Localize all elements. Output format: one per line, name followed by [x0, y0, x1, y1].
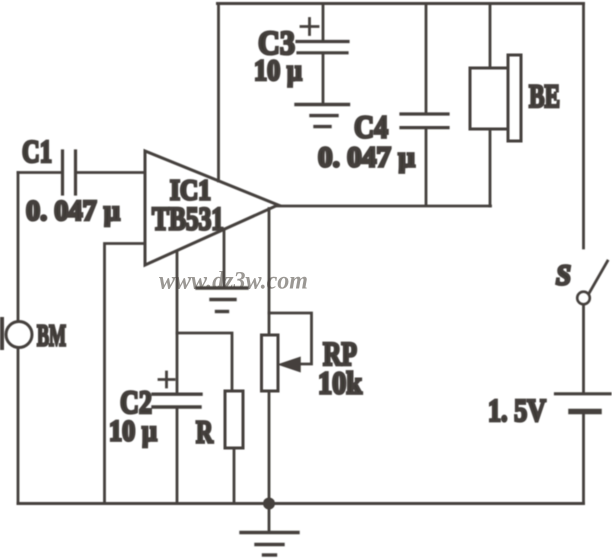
- wire: IC1 output line: [276, 205, 491, 208]
- capacitor C2 10µ: [109, 372, 201, 504]
- svg-text:C4: C4: [354, 109, 388, 145]
- wire: IC1 ground pin: [223, 231, 226, 287]
- op-amp IC1 TB531: [145, 151, 278, 265]
- svg-text:10 µ: 10 µ: [109, 415, 157, 448]
- wire: left rail upper (C1 to BM): [17, 173, 20, 322]
- potentiometer RP 10k: [262, 313, 363, 401]
- junction node dot: [263, 498, 275, 510]
- svg-text:10 µ: 10 µ: [254, 54, 302, 87]
- wire: right rail upper: [582, 4, 585, 249]
- resistor R: [196, 391, 243, 450]
- svg-text:BE: BE: [529, 79, 560, 115]
- svg-text:www.dz3w.com: www.dz3w.com: [159, 268, 308, 295]
- wire: IC1 pin to C2 node: [176, 252, 179, 394]
- wire: bottom ground rail: [18, 502, 584, 505]
- wire: C2 node branch to R: [177, 333, 232, 391]
- switch S: [556, 261, 608, 305]
- svg-text:BM: BM: [37, 318, 66, 353]
- svg-text:10k: 10k: [318, 365, 362, 401]
- wire: right rail middle (switch to battery): [582, 305, 585, 393]
- wire: right rail lower (battery to bottom rail): [582, 414, 585, 504]
- battery 1.5V: [488, 392, 610, 428]
- ground for C3: [296, 105, 349, 127]
- wire: R to bottom rail: [233, 448, 236, 504]
- wire: left rail lower (BM to bottom rail): [17, 348, 20, 504]
- svg-text:S: S: [556, 261, 571, 292]
- svg-text:R: R: [196, 414, 214, 450]
- microphone BM: [2, 318, 66, 353]
- wire: top V+ rail: [218, 2, 584, 5]
- svg-text:TB531: TB531: [152, 202, 224, 238]
- ground main: [241, 509, 298, 555]
- svg-text:C1: C1: [22, 133, 52, 169]
- capacitor C3 10µ: [254, 4, 348, 104]
- earphone BE: [470, 4, 560, 207]
- wire: V+ drop from top rail to IC1 top edge: [217, 4, 220, 182]
- capacitor C4 0.047µ: [318, 4, 448, 206]
- capacitor C1 0.047µ: [18, 133, 145, 227]
- svg-text:1. 5V: 1. 5V: [488, 392, 546, 428]
- svg-text:0. 047 µ: 0. 047 µ: [26, 195, 120, 227]
- wire: RP to junction: [268, 391, 271, 504]
- ground under IC1: [197, 288, 247, 312]
- wire: inverting input to bottom rail: [105, 244, 146, 504]
- svg-text:0. 047 µ: 0. 047 µ: [318, 142, 415, 174]
- wire: IC1 pin to RP: [268, 209, 271, 336]
